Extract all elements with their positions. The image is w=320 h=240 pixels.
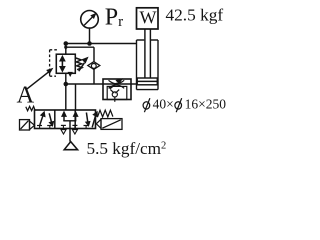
svg-text:A: A bbox=[17, 81, 35, 108]
svg-text:42.5 kgf: 42.5 kgf bbox=[166, 6, 224, 25]
svg-text:W: W bbox=[140, 8, 157, 28]
svg-text:40×: 40× bbox=[153, 97, 174, 112]
svg-text:5.5 kgf/cm2: 5.5 kgf/cm2 bbox=[87, 139, 167, 158]
svg-text:16×250: 16×250 bbox=[185, 97, 227, 112]
